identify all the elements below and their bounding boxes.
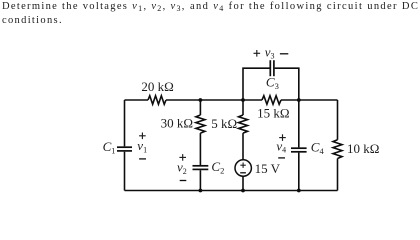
wire left vertical — [124, 100, 126, 146]
svg-text:C4: C4 — [311, 140, 325, 157]
label v3 minus — [280, 53, 288, 55]
wire C3 loop left — [243, 68, 270, 100]
svg-text:Determine the voltages v1, v2,: Determine the voltages v1, v2, v3, — [2, 1, 186, 13]
svg-text:10 kΩ: 10 kΩ — [347, 141, 379, 156]
label v2 minus — [180, 180, 187, 182]
source minus sign — [240, 172, 246, 174]
node top 5k — [241, 98, 245, 102]
label v1 minus — [139, 158, 146, 160]
svg-text:and v4 for the following circu: and v4 for the following circuit under D… — [190, 1, 419, 13]
label v4 minus — [278, 157, 285, 159]
svg-text:v4: v4 — [276, 138, 286, 154]
wire left vertical lower — [124, 152, 126, 191]
resistor R 10k — [333, 140, 342, 159]
wire bottom — [125, 190, 338, 192]
svg-text:30 kΩ: 30 kΩ — [161, 116, 193, 131]
wire 30k branch upper — [199, 100, 201, 115]
node bottom C4 — [297, 189, 301, 193]
source plus sign — [240, 163, 245, 168]
wire top left segment — [125, 99, 149, 101]
svg-text:v3: v3 — [265, 44, 275, 60]
node bottom source — [241, 189, 245, 193]
wire top middle segment — [166, 99, 262, 101]
svg-text:5 kΩ: 5 kΩ — [211, 116, 237, 131]
label v4 plus — [279, 134, 286, 141]
wire source to bottom — [242, 176, 244, 190]
wire C4 branch upper — [298, 100, 300, 147]
wire 5k branch upper — [242, 100, 244, 115]
node top C4 — [297, 98, 301, 102]
capacitor C2 — [193, 166, 209, 170]
svg-text:15 kΩ: 15 kΩ — [257, 106, 289, 121]
wire C4 to bottom — [298, 153, 300, 191]
label v1 plus — [139, 133, 146, 140]
wire 5k to source — [242, 133, 244, 160]
label v2 plus — [179, 154, 186, 161]
svg-text:20 kΩ: 20 kΩ — [141, 79, 173, 94]
capacitor C4 — [291, 148, 307, 152]
resistor R 30k — [196, 115, 205, 133]
svg-text:v2: v2 — [177, 160, 187, 176]
resistor R 15k — [262, 96, 281, 105]
resistor R 20k — [148, 96, 166, 105]
source V 15V circle — [235, 160, 251, 176]
wire right vertical upper — [337, 100, 339, 140]
wire C3 loop right — [275, 68, 299, 100]
resistor R 5k — [239, 115, 248, 133]
wire right vertical lower — [337, 159, 339, 191]
capacitor C3 — [270, 60, 274, 76]
svg-text:C2: C2 — [211, 159, 224, 176]
svg-text:C3: C3 — [266, 74, 279, 91]
svg-text:15 V: 15 V — [255, 161, 281, 176]
wire top right segment — [281, 99, 338, 101]
svg-text:v1: v1 — [137, 138, 147, 154]
svg-text:conditions.: conditions. — [2, 15, 63, 26]
wire C2 to bottom — [199, 170, 201, 190]
label v3 plus — [254, 50, 261, 57]
node top 30k — [199, 98, 203, 102]
svg-text:C1: C1 — [103, 139, 116, 156]
wire 30k to C2 — [199, 133, 201, 165]
capacitor C1 — [117, 147, 132, 151]
node bottom C2 — [199, 189, 203, 193]
